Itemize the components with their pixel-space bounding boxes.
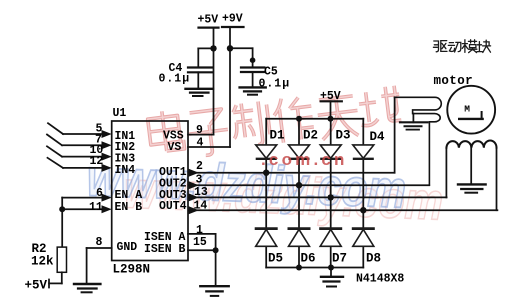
svg-text:motor: motor [434,74,474,88]
svg-text:+5V: +5V [320,90,341,103]
svg-text:IN4: IN4 [115,164,136,177]
svg-text:12: 12 [90,155,104,168]
svg-text:U1: U1 [113,107,127,120]
svg-text:2: 2 [196,160,203,173]
svg-text:OUT4: OUT4 [159,200,187,213]
svg-text:D4: D4 [370,130,386,144]
svg-text:8: 8 [96,236,103,249]
svg-text:D5: D5 [268,252,283,266]
svg-text:D6: D6 [301,252,316,266]
svg-text:EN B: EN B [115,201,143,214]
svg-text:M: M [464,103,470,114]
svg-text:N4148X8: N4148X8 [356,273,404,286]
svg-text:15: 15 [193,236,207,249]
svg-text:9: 9 [196,124,203,137]
svg-text:4: 4 [197,136,204,149]
svg-text:L298N: L298N [113,263,151,277]
svg-text:+9V: +9V [222,13,243,26]
svg-text:13: 13 [194,186,208,199]
svg-text:+5V: +5V [25,279,48,293]
svg-text:VS: VS [168,141,182,154]
svg-text:0.1μ: 0.1μ [159,73,191,86]
svg-text:12k: 12k [31,255,54,269]
svg-text:0.1μ: 0.1μ [259,78,291,91]
svg-text:GND: GND [117,241,138,254]
svg-text:D8: D8 [366,252,381,266]
svg-text:D7: D7 [332,252,347,266]
svg-text:+5V: +5V [198,14,219,27]
svg-text:D2: D2 [303,129,318,143]
svg-text:11: 11 [89,201,103,214]
svg-text:6: 6 [96,187,103,200]
svg-text:14: 14 [194,199,208,212]
svg-text:D1: D1 [270,129,285,143]
svg-text:3: 3 [196,173,203,186]
svg-text:ISEN B: ISEN B [144,243,186,256]
svg-text:D3: D3 [336,129,351,143]
